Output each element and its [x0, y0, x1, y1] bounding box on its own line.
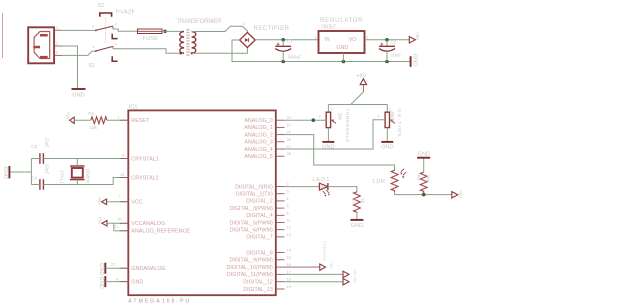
ground rail end — [411, 54, 418, 67]
svg-text:12: 12 — [287, 226, 291, 230]
wire switch pole2 to transformer primary bottom — [113, 49, 184, 54]
wire R1 to RESET pin — [107, 119, 128, 121]
supply +5V LDR divider — [452, 190, 463, 199]
svg-text:DIGITAL_2: DIGITAL_2 — [246, 199, 273, 205]
wire ANALOG_0 to pot R4 — [285, 119, 327, 121]
resistor R1 — [88, 111, 107, 130]
junction C2 top — [385, 38, 389, 42]
supply +5V pots feed — [356, 74, 366, 85]
svg-text:ANALOG_3: ANALOG_3 — [244, 140, 272, 146]
svg-text:7: 7 — [118, 195, 120, 199]
svg-text:3: 3 — [319, 115, 321, 119]
resistor R2 — [351, 192, 365, 213]
wire +5V to VCCANALOG and ANALOG_REFERENCE — [107, 223, 128, 231]
LED LED1 — [312, 177, 330, 197]
svg-text:GND: GND — [322, 145, 334, 151]
ground crystal — [2, 166, 9, 179]
wire pots top rail — [328, 104, 387, 106]
svg-text:1: 1 — [389, 108, 391, 112]
svg-text:DIGITAL_12: DIGITAL_12 — [243, 280, 273, 286]
svg-text:16: 16 — [287, 263, 291, 267]
svg-text:GND: GND — [2, 167, 8, 179]
wire regulator VO to +5V — [365, 39, 410, 41]
svg-text:1: 1 — [314, 35, 316, 39]
svg-text:ANALOG_1: ANALOG_1 — [244, 125, 272, 131]
svg-text:REGULATOR: REGULATOR — [320, 18, 363, 24]
svg-text:11: 11 — [287, 219, 291, 223]
svg-text:3: 3 — [377, 115, 379, 119]
svg-text:21: 21 — [114, 225, 118, 229]
svg-text:SPEAKER: SPEAKER — [322, 241, 327, 261]
wire fuse to transformer primary — [162, 30, 184, 32]
wire transformer secondary bottom to rectifier — [192, 48, 248, 54]
junction C2 bottom — [385, 60, 389, 64]
svg-text:GND: GND — [72, 92, 84, 98]
wire ground to GND pin — [105, 281, 128, 283]
svg-text:+5V: +5V — [329, 262, 333, 269]
svg-text:18: 18 — [287, 278, 291, 282]
svg-text:DIGITAL_5(PWM): DIGITAL_5(PWM) — [229, 220, 273, 226]
svg-text:+5V: +5V — [353, 277, 357, 284]
svg-text:DIGITAL_4: DIGITAL_4 — [246, 213, 273, 219]
svg-text:24: 24 — [287, 123, 291, 127]
supply +5V analog reference — [97, 216, 107, 226]
svg-text:13: 13 — [287, 233, 291, 237]
svg-text:DIGITAL_8: DIGITAL_8 — [246, 250, 273, 256]
svg-text:GND: GND — [98, 263, 104, 275]
svg-text:VCC: VCC — [131, 200, 142, 206]
wire C3 to CRYSTAL1 pin — [43, 158, 128, 160]
wire caps to ground — [10, 159, 40, 185]
wire R2 to ground — [356, 213, 358, 220]
svg-text:3: 3 — [366, 35, 368, 39]
svg-text:10k: 10k — [426, 175, 431, 183]
svg-text:250k: 250k — [390, 111, 395, 122]
svg-text:C2: C2 — [390, 39, 396, 44]
resistor R3 — [416, 172, 430, 194]
wire +5V to VCC pin — [107, 201, 129, 203]
svg-text:5: 5 — [287, 204, 289, 208]
supply +5V VCC — [97, 197, 107, 206]
svg-text:9: 9 — [122, 154, 124, 158]
svg-text:DIGITAL_13: DIGITAL_13 — [243, 287, 273, 293]
IC1 right digital pins 8-13 — [226, 249, 290, 293]
svg-text:10uF: 10uF — [391, 53, 402, 58]
svg-text:8: 8 — [116, 277, 118, 281]
svg-text:10: 10 — [120, 173, 124, 177]
supply +5V reset pullup — [65, 112, 74, 124]
svg-text:17: 17 — [287, 270, 291, 274]
svg-text:+5V: +5V — [356, 74, 366, 80]
svg-text:1: 1 — [117, 116, 119, 120]
svg-text:C3: C3 — [31, 144, 37, 149]
svg-text:GNDANALOG: GNDANALOG — [131, 266, 165, 272]
svg-text:R1: R1 — [88, 111, 94, 116]
svg-text:+5V: +5V — [415, 32, 420, 41]
svg-text:DIGITAL_6(PWM): DIGITAL_6(PWM) — [229, 228, 273, 234]
supply arrow DIGITAL_10 — [320, 262, 333, 270]
wire DIGITAL_0 to LED1 — [285, 186, 320, 188]
crystal Q1 — [59, 166, 90, 184]
svg-text:THRESHOLD: THRESHOLD — [345, 109, 350, 144]
svg-text:GND: GND — [417, 152, 429, 158]
svg-text:VCCANALOG: VCCANALOG — [131, 221, 165, 227]
svg-text:1: 1 — [56, 26, 58, 30]
wire DIGITAL_10 output — [285, 266, 320, 268]
wire DIGITAL_12 output — [285, 281, 344, 283]
svg-text:1: 1 — [330, 108, 332, 112]
wire C4 to CRYSTAL2 pin — [43, 178, 128, 185]
svg-text:IC1: IC1 — [129, 105, 138, 111]
wire ground to GNDANALOG pin — [105, 267, 128, 269]
capacitor C1 — [275, 39, 301, 62]
capacitor C3 — [31, 138, 49, 164]
wire ANALOG_4 to pot R5 wiper — [285, 120, 386, 149]
svg-text:+5V: +5V — [353, 269, 357, 276]
svg-text:VI: VI — [325, 37, 330, 43]
svg-text:LDR: LDR — [373, 179, 386, 185]
svg-text:ANALOG_REFERENCE: ANALOG_REFERENCE — [131, 229, 190, 235]
svg-text:6: 6 — [287, 211, 289, 215]
fuse F1 — [138, 29, 163, 42]
wire +5V to R1 — [74, 119, 91, 121]
transformer TR1 — [177, 19, 223, 56]
svg-text:VO: VO — [349, 37, 357, 43]
svg-text:ANALOG_4: ANALOG_4 — [244, 147, 272, 153]
svg-text:3: 3 — [287, 190, 289, 194]
svg-text:28: 28 — [287, 152, 291, 156]
svg-text:FUSE: FUSE — [143, 36, 159, 42]
wire transformer secondary top to rectifier — [192, 26, 248, 32]
junction C1 top — [281, 38, 285, 42]
ground R2 — [350, 220, 363, 229]
supply arrow DIGITAL_12 — [343, 277, 357, 285]
svg-text:+5V: +5V — [458, 190, 463, 199]
svg-text:+5V: +5V — [65, 112, 70, 121]
junction regulator GND — [342, 60, 346, 64]
svg-text:3: 3 — [56, 51, 58, 55]
wire regulator GND to rail — [342, 53, 344, 62]
svg-text:DIGITAL_7: DIGITAL_7 — [246, 235, 273, 241]
svg-text:S1: S1 — [98, 3, 105, 9]
ground pot R5 — [381, 142, 393, 151]
svg-text:CRYSTAL2: CRYSTAL2 — [131, 175, 158, 181]
svg-text:2: 2 — [92, 25, 94, 29]
svg-text:22pF: 22pF — [44, 164, 49, 175]
svg-text:RECTIFIER: RECTIFIER — [254, 26, 290, 32]
wire +5V to pots rail — [362, 85, 364, 92]
svg-text:DIGITAL_3(PWM): DIGITAL_3(PWM) — [229, 206, 273, 212]
svg-text:GND: GND — [98, 276, 104, 288]
junction ANALOG_0 — [312, 118, 316, 122]
voltage regulator U2 7805 — [314, 18, 368, 53]
svg-text:2: 2 — [287, 183, 289, 187]
svg-text:2: 2 — [243, 22, 245, 26]
svg-text:CRYSTAL1: CRYSTAL1 — [131, 156, 158, 162]
svg-text:19: 19 — [287, 285, 291, 289]
ground GND pin — [98, 276, 105, 289]
svg-text:26: 26 — [287, 138, 291, 142]
wire ANALOG_2 to LDR divider — [285, 135, 395, 171]
svg-text:C1: C1 — [287, 39, 293, 44]
wire inlet N to switch pole 2 — [62, 51, 96, 55]
svg-text:1: 1 — [115, 42, 117, 46]
connector X1 AC inlet — [28, 26, 62, 63]
svg-text:C4: C4 — [31, 176, 37, 181]
junction fuse output — [163, 30, 166, 33]
svg-text:XTAL1: XTAL1 — [59, 170, 64, 184]
ground R3 — [417, 152, 430, 158]
junction C1 bottom — [281, 60, 285, 64]
wire rectifier plus to regulator VI — [255, 39, 318, 41]
svg-text:R3: R3 — [416, 175, 421, 181]
svg-text:ANALOG_2: ANALOG_2 — [244, 132, 272, 138]
svg-text:ANALOG_0: ANALOG_0 — [244, 118, 272, 124]
svg-text:LED1: LED1 — [312, 177, 329, 183]
IC1 left pins — [111, 116, 190, 286]
trimmer R5 ON-TIME — [377, 105, 402, 142]
svg-text:15: 15 — [287, 256, 291, 260]
trimmer R4 THRESHOLD — [319, 105, 350, 144]
svg-text:7805T: 7805T — [321, 24, 337, 30]
svg-text:25: 25 — [287, 131, 291, 135]
svg-text:4: 4 — [287, 197, 289, 201]
svg-text:1k: 1k — [361, 199, 366, 205]
svg-text:RESET: RESET — [131, 118, 150, 124]
svg-text:GND: GND — [411, 54, 417, 66]
svg-text:GND: GND — [381, 145, 393, 151]
svg-text:1: 1 — [241, 52, 243, 56]
wire inlet L to switch pole 1 — [62, 29, 96, 31]
svg-text:GND: GND — [131, 279, 143, 285]
ground pot R4 — [322, 142, 334, 151]
IC1 right analog pins — [244, 116, 290, 160]
supply arrow DIGITAL_11 — [343, 269, 357, 277]
wire DIGITAL_11 output — [285, 273, 344, 275]
svg-text:+5V: +5V — [97, 197, 102, 206]
svg-text:DIGITAL_1(TX): DIGITAL_1(TX) — [236, 192, 273, 198]
IC1 right digital pins 0-7 — [229, 183, 290, 241]
svg-text:+5V: +5V — [97, 216, 102, 225]
svg-text:23: 23 — [287, 116, 291, 120]
svg-text:2: 2 — [115, 22, 117, 26]
svg-text:20: 20 — [117, 218, 121, 222]
wire crystal top — [76, 159, 78, 167]
svg-text:DIGITAL_9(PWM): DIGITAL_9(PWM) — [229, 258, 273, 264]
svg-text:25k: 25k — [338, 113, 343, 121]
svg-text:22pF: 22pF — [44, 138, 49, 149]
capacitor C4 — [31, 164, 49, 190]
junction LDR R3 — [422, 193, 426, 197]
svg-text:10k: 10k — [90, 125, 98, 130]
microcontroller IC1 ATMEGA168 — [128, 105, 275, 305]
wire R3 to ground — [423, 158, 425, 172]
svg-text:14: 14 — [287, 249, 291, 253]
wire LED1 to R2 — [328, 187, 357, 192]
svg-text:16MHz: 16MHz — [86, 169, 91, 184]
wire switch pole1 to fuse — [113, 29, 138, 31]
rectifier B1 — [240, 22, 290, 56]
wire crystal bottom — [76, 180, 78, 185]
svg-text:GND: GND — [351, 223, 363, 229]
svg-text:22: 22 — [111, 263, 115, 267]
svg-text:2: 2 — [56, 42, 58, 46]
wire rectifier minus to ground rail — [232, 40, 410, 62]
svg-text:ANALOG_5: ANALOG_5 — [244, 154, 272, 160]
svg-text:TRANSFORMER: TRANSFORMER — [177, 19, 223, 25]
ground inlet PE — [62, 46, 86, 98]
svg-text:R2: R2 — [351, 198, 356, 204]
svg-text:DIGITAL_11(PWM): DIGITAL_11(PWM) — [227, 272, 273, 278]
svg-text:GND: GND — [336, 45, 348, 51]
ground GNDANALOG — [98, 263, 105, 276]
svg-text:DIGITAL_0(RX): DIGITAL_0(RX) — [235, 184, 273, 190]
svg-text:27: 27 — [287, 145, 291, 149]
photoresistor LDR — [373, 169, 407, 192]
svg-text:500uF: 500uF — [288, 54, 301, 59]
svg-text:PVA2F: PVA2F — [116, 10, 136, 16]
svg-text:DIGITAL_10(PWM): DIGITAL_10(PWM) — [226, 265, 273, 271]
svg-text:S1: S1 — [88, 63, 95, 69]
svg-text:1: 1 — [92, 45, 94, 49]
capacitor C2 — [379, 39, 401, 61]
switch S1 — [88, 3, 135, 69]
wire LDR to divider node — [395, 192, 452, 195]
supply +5V regulator output — [409, 32, 420, 43]
